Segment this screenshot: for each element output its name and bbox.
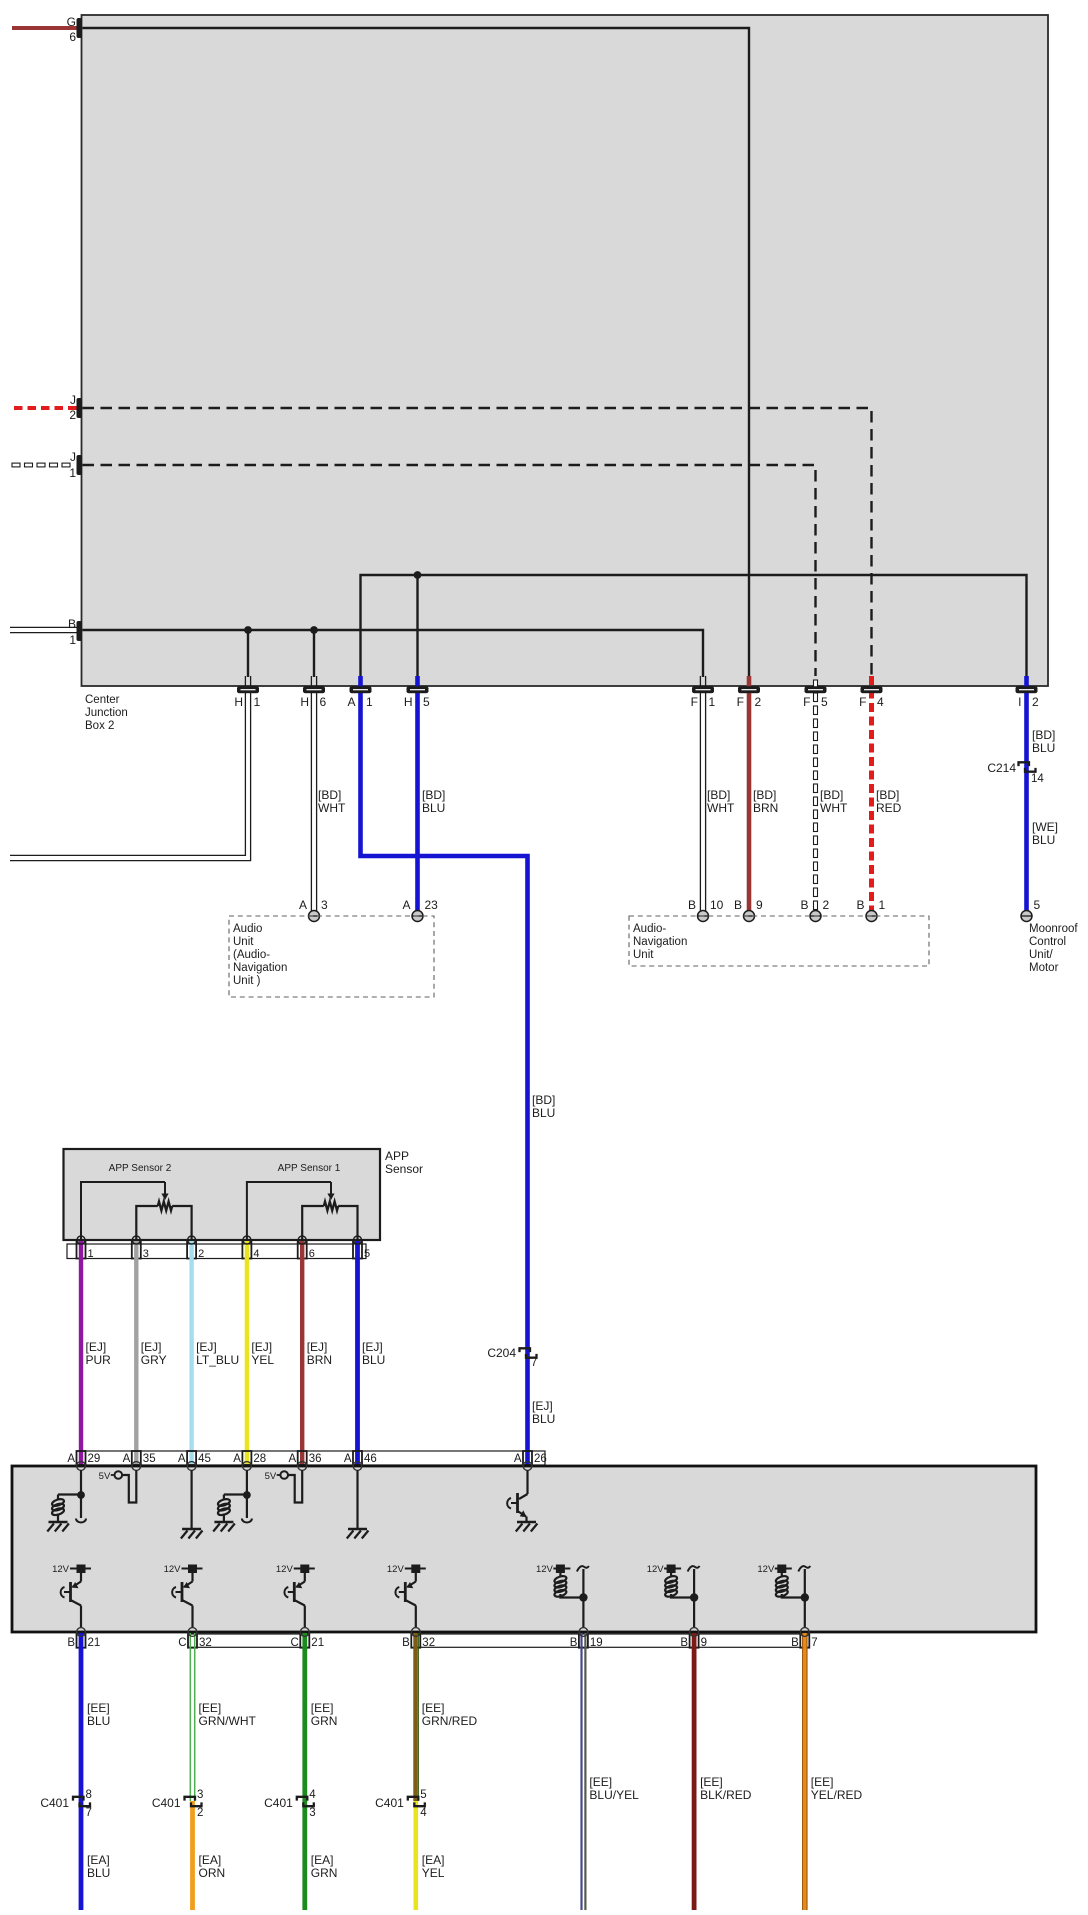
svg-text:3: 3 bbox=[143, 1248, 149, 1260]
svg-text:7: 7 bbox=[86, 1807, 92, 1819]
svg-text:6: 6 bbox=[69, 30, 76, 44]
svg-text:[EA]: [EA] bbox=[199, 1853, 222, 1867]
svg-text:[EA]: [EA] bbox=[87, 1853, 110, 1867]
svg-text:5V: 5V bbox=[99, 1471, 111, 1482]
svg-text:4: 4 bbox=[877, 695, 884, 709]
svg-text:Junction: Junction bbox=[85, 707, 128, 719]
svg-text:GRN: GRN bbox=[311, 1714, 338, 1728]
svg-text:5: 5 bbox=[364, 1248, 370, 1260]
svg-text:[BD]: [BD] bbox=[707, 788, 730, 802]
svg-text:[BD]: [BD] bbox=[422, 788, 445, 802]
svg-text:28: 28 bbox=[253, 1453, 266, 1465]
svg-text:12V: 12V bbox=[647, 1564, 665, 1575]
svg-text:G: G bbox=[67, 15, 76, 29]
svg-text:21: 21 bbox=[311, 1637, 324, 1649]
svg-text:J: J bbox=[70, 450, 76, 464]
svg-text:23: 23 bbox=[425, 898, 439, 912]
svg-text:2: 2 bbox=[755, 695, 762, 709]
svg-text:2: 2 bbox=[823, 898, 830, 912]
svg-text:14: 14 bbox=[1031, 773, 1044, 785]
svg-text:36: 36 bbox=[309, 1453, 322, 1465]
svg-text:1: 1 bbox=[69, 633, 76, 647]
svg-text:BLU: BLU bbox=[532, 1106, 555, 1120]
svg-text:(Audio-: (Audio- bbox=[233, 949, 270, 961]
svg-text:BLU: BLU bbox=[362, 1353, 385, 1367]
svg-text:WHT: WHT bbox=[820, 801, 848, 815]
svg-text:B: B bbox=[791, 1637, 799, 1649]
svg-text:APP: APP bbox=[385, 1149, 409, 1163]
svg-text:45: 45 bbox=[198, 1453, 211, 1465]
svg-text:F: F bbox=[803, 695, 810, 709]
svg-text:B: B bbox=[570, 1637, 578, 1649]
svg-text:BLU: BLU bbox=[422, 801, 445, 815]
svg-text:APP Sensor 2: APP Sensor 2 bbox=[109, 1163, 172, 1174]
svg-text:5: 5 bbox=[821, 695, 828, 709]
svg-text:Motor: Motor bbox=[1029, 962, 1059, 974]
svg-text:3: 3 bbox=[321, 898, 328, 912]
svg-text:[EE]: [EE] bbox=[87, 1701, 110, 1715]
svg-text:Navigation: Navigation bbox=[633, 936, 687, 948]
svg-text:B: B bbox=[67, 1637, 75, 1649]
svg-text:8: 8 bbox=[86, 1789, 92, 1801]
svg-text:[EE]: [EE] bbox=[700, 1775, 723, 1789]
svg-text:46: 46 bbox=[364, 1453, 377, 1465]
svg-text:[EE]: [EE] bbox=[589, 1775, 612, 1789]
svg-text:12V: 12V bbox=[164, 1564, 182, 1575]
svg-text:10: 10 bbox=[710, 898, 724, 912]
svg-text:GRN/WHT: GRN/WHT bbox=[199, 1714, 257, 1728]
svg-text:H: H bbox=[234, 695, 243, 709]
svg-text:C: C bbox=[178, 1637, 186, 1649]
svg-text:1: 1 bbox=[709, 695, 716, 709]
svg-text:A: A bbox=[123, 1453, 131, 1465]
svg-text:[BD]: [BD] bbox=[1032, 728, 1055, 742]
svg-text:5: 5 bbox=[1034, 898, 1041, 912]
svg-text:[BD]: [BD] bbox=[532, 1093, 555, 1107]
svg-text:3: 3 bbox=[197, 1789, 203, 1801]
svg-text:J: J bbox=[70, 393, 76, 407]
svg-text:4: 4 bbox=[420, 1807, 427, 1819]
svg-text:APP Sensor 1: APP Sensor 1 bbox=[278, 1163, 341, 1174]
svg-text:B: B bbox=[68, 617, 76, 631]
svg-text:[EJ]: [EJ] bbox=[86, 1340, 107, 1354]
svg-text:9: 9 bbox=[756, 898, 763, 912]
svg-text:4: 4 bbox=[309, 1789, 316, 1801]
svg-text:7: 7 bbox=[531, 1357, 537, 1369]
svg-text:B: B bbox=[402, 1637, 410, 1649]
svg-text:F: F bbox=[737, 695, 744, 709]
svg-text:32: 32 bbox=[199, 1637, 212, 1649]
svg-text:Box 2: Box 2 bbox=[85, 720, 114, 732]
svg-text:C401: C401 bbox=[375, 1796, 404, 1810]
svg-text:2: 2 bbox=[198, 1248, 204, 1260]
svg-text:Unit: Unit bbox=[633, 949, 654, 961]
svg-text:A: A bbox=[289, 1453, 297, 1465]
svg-text:A: A bbox=[233, 1453, 241, 1465]
svg-text:ORN: ORN bbox=[199, 1866, 226, 1880]
svg-text:A: A bbox=[344, 1453, 352, 1465]
svg-text:Center: Center bbox=[85, 694, 120, 706]
svg-text:BLU/YEL: BLU/YEL bbox=[589, 1788, 639, 1802]
svg-text:[EE]: [EE] bbox=[199, 1701, 222, 1715]
svg-text:12V: 12V bbox=[387, 1564, 405, 1575]
svg-text:H: H bbox=[300, 695, 309, 709]
svg-text:5: 5 bbox=[423, 695, 430, 709]
svg-text:LT_BLU: LT_BLU bbox=[196, 1353, 239, 1367]
svg-text:3: 3 bbox=[309, 1807, 315, 1819]
svg-text:B: B bbox=[688, 898, 696, 912]
svg-text:A: A bbox=[178, 1453, 186, 1465]
svg-text:Unit/: Unit/ bbox=[1029, 949, 1053, 961]
svg-text:12V: 12V bbox=[757, 1564, 775, 1575]
svg-text:H: H bbox=[404, 695, 413, 709]
svg-text:YEL: YEL bbox=[251, 1353, 274, 1367]
svg-text:[EJ]: [EJ] bbox=[307, 1340, 328, 1354]
svg-text:[EJ]: [EJ] bbox=[251, 1340, 272, 1354]
svg-text:C204: C204 bbox=[487, 1346, 516, 1360]
svg-text:BLU: BLU bbox=[1032, 741, 1055, 755]
svg-text:WHT: WHT bbox=[318, 801, 346, 815]
svg-text:6: 6 bbox=[309, 1248, 315, 1260]
svg-text:Unit: Unit bbox=[233, 936, 254, 948]
svg-text:35: 35 bbox=[143, 1453, 156, 1465]
svg-text:C401: C401 bbox=[40, 1796, 69, 1810]
svg-text:5V: 5V bbox=[265, 1471, 277, 1482]
svg-text:Navigation: Navigation bbox=[233, 962, 287, 974]
svg-text:12V: 12V bbox=[536, 1564, 554, 1575]
svg-text:A: A bbox=[347, 695, 355, 709]
svg-text:B: B bbox=[800, 898, 808, 912]
svg-text:RED: RED bbox=[876, 801, 902, 815]
svg-text:19: 19 bbox=[590, 1637, 603, 1649]
svg-text:9: 9 bbox=[701, 1637, 707, 1649]
svg-text:1: 1 bbox=[254, 695, 261, 709]
svg-text:Audio: Audio bbox=[233, 923, 262, 935]
svg-text:C214: C214 bbox=[987, 761, 1016, 775]
svg-text:Sensor: Sensor bbox=[385, 1162, 423, 1176]
svg-text:B: B bbox=[734, 898, 742, 912]
svg-text:1: 1 bbox=[879, 898, 886, 912]
svg-text:[WE]: [WE] bbox=[1032, 820, 1058, 834]
svg-text:C: C bbox=[290, 1637, 298, 1649]
svg-text:32: 32 bbox=[422, 1637, 435, 1649]
svg-text:BRN: BRN bbox=[753, 801, 778, 815]
svg-text:A: A bbox=[299, 898, 307, 912]
svg-text:A: A bbox=[67, 1453, 75, 1465]
svg-text:B: B bbox=[856, 898, 864, 912]
svg-text:12V: 12V bbox=[52, 1564, 70, 1575]
svg-text:BLK/RED: BLK/RED bbox=[700, 1788, 752, 1802]
svg-text:WHT: WHT bbox=[707, 801, 735, 815]
svg-text:Unit ): Unit ) bbox=[233, 975, 261, 987]
svg-text:[EE]: [EE] bbox=[811, 1775, 834, 1789]
svg-text:12V: 12V bbox=[276, 1564, 294, 1575]
svg-text:Audio-: Audio- bbox=[633, 923, 666, 935]
svg-text:BLU: BLU bbox=[87, 1714, 110, 1728]
svg-text:BRN: BRN bbox=[307, 1353, 332, 1367]
svg-text:[EE]: [EE] bbox=[422, 1701, 445, 1715]
svg-text:[EA]: [EA] bbox=[311, 1853, 334, 1867]
svg-text:7: 7 bbox=[811, 1637, 817, 1649]
svg-text:[EJ]: [EJ] bbox=[362, 1340, 383, 1354]
svg-text:[EJ]: [EJ] bbox=[196, 1340, 217, 1354]
svg-text:[BD]: [BD] bbox=[753, 788, 776, 802]
svg-text:4: 4 bbox=[253, 1248, 259, 1260]
svg-text:1: 1 bbox=[69, 466, 76, 480]
svg-text:[EJ]: [EJ] bbox=[141, 1340, 162, 1354]
svg-text:Control: Control bbox=[1029, 936, 1066, 948]
svg-text:C401: C401 bbox=[152, 1796, 181, 1810]
svg-text:BLU: BLU bbox=[1032, 833, 1055, 847]
svg-text:I: I bbox=[1018, 695, 1021, 709]
svg-text:1: 1 bbox=[366, 695, 373, 709]
svg-text:1: 1 bbox=[88, 1248, 94, 1260]
svg-text:GRN/RED: GRN/RED bbox=[422, 1714, 478, 1728]
svg-text:BLU: BLU bbox=[532, 1412, 555, 1426]
svg-text:GRY: GRY bbox=[141, 1353, 167, 1367]
svg-text:[BD]: [BD] bbox=[876, 788, 899, 802]
svg-text:21: 21 bbox=[88, 1637, 101, 1649]
svg-text:[EA]: [EA] bbox=[422, 1853, 445, 1867]
svg-text:C401: C401 bbox=[264, 1796, 293, 1810]
svg-text:5: 5 bbox=[420, 1789, 426, 1801]
svg-text:[BD]: [BD] bbox=[318, 788, 341, 802]
svg-text:[BD]: [BD] bbox=[820, 788, 843, 802]
svg-text:6: 6 bbox=[320, 695, 327, 709]
svg-text:[EJ]: [EJ] bbox=[532, 1399, 553, 1413]
svg-text:2: 2 bbox=[197, 1807, 203, 1819]
svg-text:F: F bbox=[691, 695, 698, 709]
svg-text:29: 29 bbox=[88, 1453, 101, 1465]
svg-text:A: A bbox=[402, 898, 410, 912]
svg-text:GRN: GRN bbox=[311, 1866, 338, 1880]
svg-text:BLU: BLU bbox=[87, 1866, 110, 1880]
svg-text:Moonroof: Moonroof bbox=[1029, 923, 1078, 935]
svg-text:F: F bbox=[859, 695, 866, 709]
svg-text:2: 2 bbox=[69, 408, 76, 422]
svg-text:A: A bbox=[514, 1453, 522, 1465]
svg-text:26: 26 bbox=[534, 1453, 547, 1465]
svg-text:PUR: PUR bbox=[86, 1353, 112, 1367]
svg-text:2: 2 bbox=[1032, 695, 1039, 709]
svg-text:B: B bbox=[680, 1637, 688, 1649]
svg-text:YEL: YEL bbox=[422, 1866, 445, 1880]
svg-text:[EE]: [EE] bbox=[311, 1701, 334, 1715]
svg-text:YEL/RED: YEL/RED bbox=[811, 1788, 863, 1802]
